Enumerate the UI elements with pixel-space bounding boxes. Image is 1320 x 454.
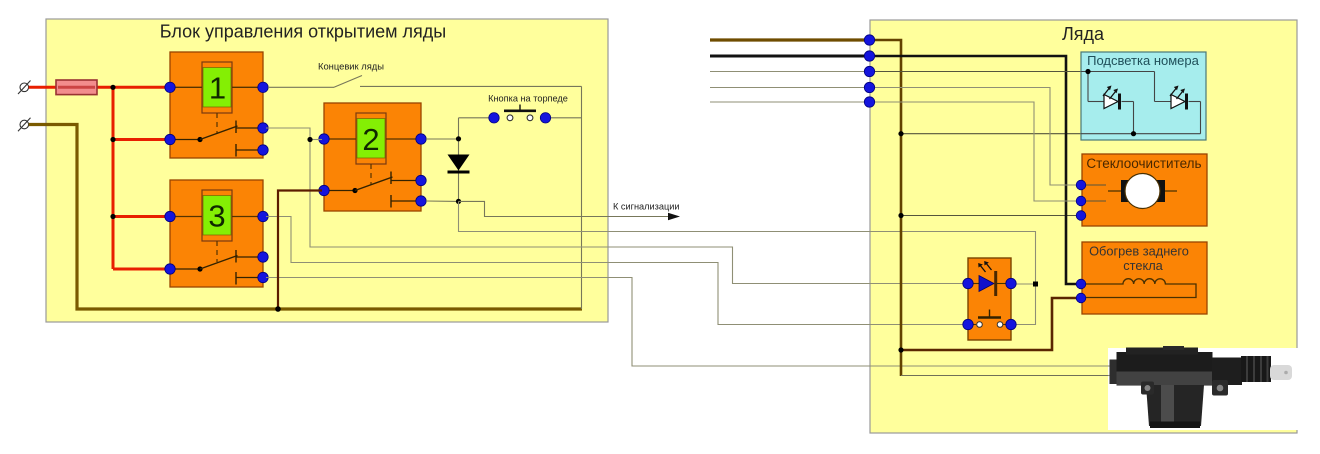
relay2 terminal: common (319, 185, 329, 195)
harness stub: black feed wire (710, 55, 870, 58)
wire A: diode node to LED-module right node (long) (459, 201, 1036, 324)
module pushbutton (968, 310, 1011, 328)
wiper terminal stubs (1081, 185, 1106, 201)
relay2 terminal: NO contact (416, 196, 426, 206)
svg-text:Концевик ляды: Концевик ляды (318, 61, 384, 72)
relay1 terminal: NO contact (258, 145, 268, 155)
relay 1 (170, 52, 263, 158)
heater element symbol (1082, 279, 1196, 298)
LED + button module (status indicator) (968, 258, 1011, 340)
hatch connector terminal 2 (black) (864, 51, 874, 61)
module terminal bottom-left (963, 319, 973, 329)
junction: red bus / relay3 coil (110, 214, 115, 219)
wire: connector to plate light top node (870, 71, 1088, 73)
relay1 terminal: NC contact (258, 123, 268, 133)
relay1 terminal: coil left (165, 82, 175, 92)
wire: diode branch vertical (button left to relay2 NO node) (458, 118, 460, 202)
junction: plate light bottom rail (1131, 131, 1136, 136)
relay1 terminal: coil right (258, 82, 268, 92)
actuator photo background (1108, 348, 1299, 430)
svg-text:Подсветка номера: Подсветка номера (1087, 53, 1200, 68)
svg-text:Блок управления открытием ляды: Блок управления открытием ляды (160, 22, 446, 42)
wiper terminal 1 (1076, 180, 1086, 190)
actuator body (photo) (1110, 346, 1293, 428)
heater terminal lower (1076, 293, 1086, 303)
ground bus wire (brown): pin2 down and along box bottom (29, 125, 582, 310)
relay2 terminal: coil right (416, 134, 426, 144)
wire: connector to wiper terminal 1 (870, 88, 1079, 186)
wiper terminal 3 (1076, 211, 1086, 221)
junction: red bus / relay1 common (110, 137, 115, 142)
relay 3 (170, 180, 263, 287)
module terminal top-left (963, 278, 973, 288)
junction: diode cathode / relay2 NO (456, 199, 461, 204)
svg-text:Кнопка на торпеде: Кнопка на торпеде (488, 94, 568, 104)
red supply net: fuse to relays, vertical bus x=113 (95, 87, 170, 269)
svg-text:Стеклоочиститель: Стеклоочиститель (1086, 156, 1201, 171)
junction: brown net / plate rail (898, 131, 903, 136)
module LED (blue) (978, 261, 996, 296)
junction: maroon wire on ground bus (275, 306, 281, 312)
wire: limit switch / pushbutton down to ground bus (x=581.5) (581, 86, 583, 309)
svg-text:1: 1 (209, 71, 226, 106)
relay3 terminal: coil left (165, 211, 175, 221)
wire C: relay3 coil right to LED-module bottom-left terminal (266, 217, 966, 325)
black feed net: to heater upper terminal (870, 56, 1079, 284)
hatch enclosure (Ляда) (870, 20, 1297, 433)
wire: relay2 common to ground bus (maroon) (278, 191, 322, 310)
junction: diode anode / relay2 coil (456, 136, 461, 141)
module terminal top-right (1006, 278, 1016, 288)
hatch connector terminal 1 (brown) (864, 35, 874, 45)
wire: relay2 coil right to diode node (426, 138, 459, 140)
wire: pin1 to fuse (red) (29, 86, 58, 89)
wire: relay2 NO to diode cathode node (426, 200, 459, 202)
control unit enclosure (Блок управления открытием ляды) (46, 19, 608, 322)
junction: brown net / wiper (898, 213, 903, 218)
windscreen wiper box (Стеклоочиститель) (1082, 154, 1207, 226)
relay3 terminal: common (165, 264, 175, 274)
svg-text:Обогрев заднего: Обогрев заднего (1089, 244, 1189, 259)
wire: connector to wiper terminal 2 (870, 102, 1079, 201)
relay1 terminal: common (165, 134, 175, 144)
brown distribution net inside hatch (x=901) (870, 40, 901, 376)
harness stub: brown feed wire (710, 38, 870, 41)
svg-text:2: 2 (362, 122, 379, 157)
limit switch (Концевик ляды) wire from relay1 coil (268, 76, 582, 88)
svg-text:Ляда: Ляда (1062, 24, 1105, 44)
rear window heater box (Обогрев заднего стекла) (1082, 242, 1207, 314)
wire B: relay1 NC contact / relay2 coil node to LED-module left terminal (266, 128, 966, 284)
wire D: relay3 NO contact to actuator (long bottom wire) (266, 278, 1113, 367)
relay2 terminal: NC contact (416, 175, 426, 185)
junction: red bus / relay1 coil (110, 85, 115, 90)
actuator wires into photo (1108, 365, 1118, 367)
junction square: wire A node (1033, 282, 1038, 287)
brown branch: thick to heater lower terminal (901, 298, 1079, 350)
svg-text:3: 3 (208, 199, 225, 234)
svg-text:К сигнализации: К сигнализации (613, 202, 680, 212)
pushbutton on dash (Кнопка на торпеде) (459, 94, 582, 121)
wire A branch: node to LED-module right terminal (1013, 283, 1036, 285)
relay3 terminal: NO contact (258, 272, 268, 282)
brown branch: to actuator lower wire (901, 375, 1113, 377)
pushbutton terminal left (489, 113, 499, 123)
harness stub: wire to wiper 2 (710, 101, 870, 103)
relay 2 (324, 103, 421, 211)
heater terminal upper (1076, 279, 1086, 289)
licence plate light box (Подсветка номера) (1081, 52, 1206, 140)
junction: brown net / heater (898, 347, 903, 352)
junction: plate light top node (1085, 69, 1090, 74)
harness stub: wire to plate light (710, 71, 870, 73)
pushbutton terminal right (540, 113, 550, 123)
LED lamp 1 (1103, 86, 1120, 110)
relay3 terminal: coil right (258, 211, 268, 221)
svg-text:стекла: стекла (1123, 258, 1163, 273)
wiper motor symbol (1108, 174, 1177, 209)
relay2 terminal: coil left (319, 134, 329, 144)
hatch connector terminal 3 (864, 66, 874, 76)
module terminal bottom-right (1006, 319, 1016, 329)
brown branch: to plate light return rail (901, 133, 1201, 135)
brown branch: to wiper lower terminal (901, 215, 1079, 217)
connector pin 1 (+12V input) (18, 81, 31, 95)
harness stub: wire to wiper 1 (710, 87, 870, 89)
fuse F1 (56, 80, 97, 95)
relay3 terminal: NC contact (258, 252, 268, 262)
wire: to alarm (К сигнализации) with arrow (459, 201, 681, 220)
diode D1 (448, 155, 470, 173)
wiper terminal 2 (1076, 196, 1086, 206)
LED lamp 2 (1170, 86, 1187, 110)
hatch connector terminal 4 (864, 82, 874, 92)
plate light internal wiring (1081, 72, 1201, 134)
connector pin 2 (ground input) (18, 118, 31, 132)
hatch connector terminal 5 (864, 97, 874, 107)
